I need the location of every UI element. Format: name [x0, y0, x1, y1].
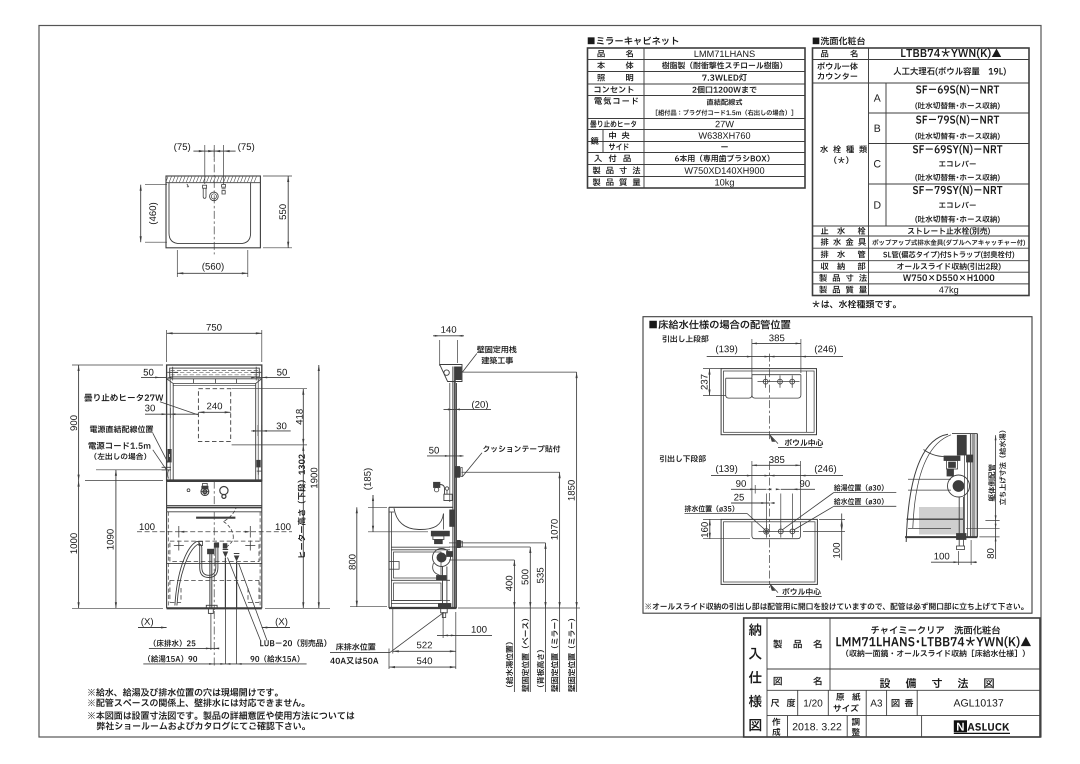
- top view counter: [166, 176, 260, 248]
- left table: mirror cabinet: [588, 37, 679, 45]
- side view: [449, 383, 451, 502]
- bottom-left notes: [88, 688, 278, 697]
- right box: floor piping: [643, 317, 1032, 614]
- trap detail: [919, 507, 963, 535]
- front view: [167, 365, 262, 481]
- right table: vanity: [813, 37, 865, 45]
- title block: [744, 618, 1040, 737]
